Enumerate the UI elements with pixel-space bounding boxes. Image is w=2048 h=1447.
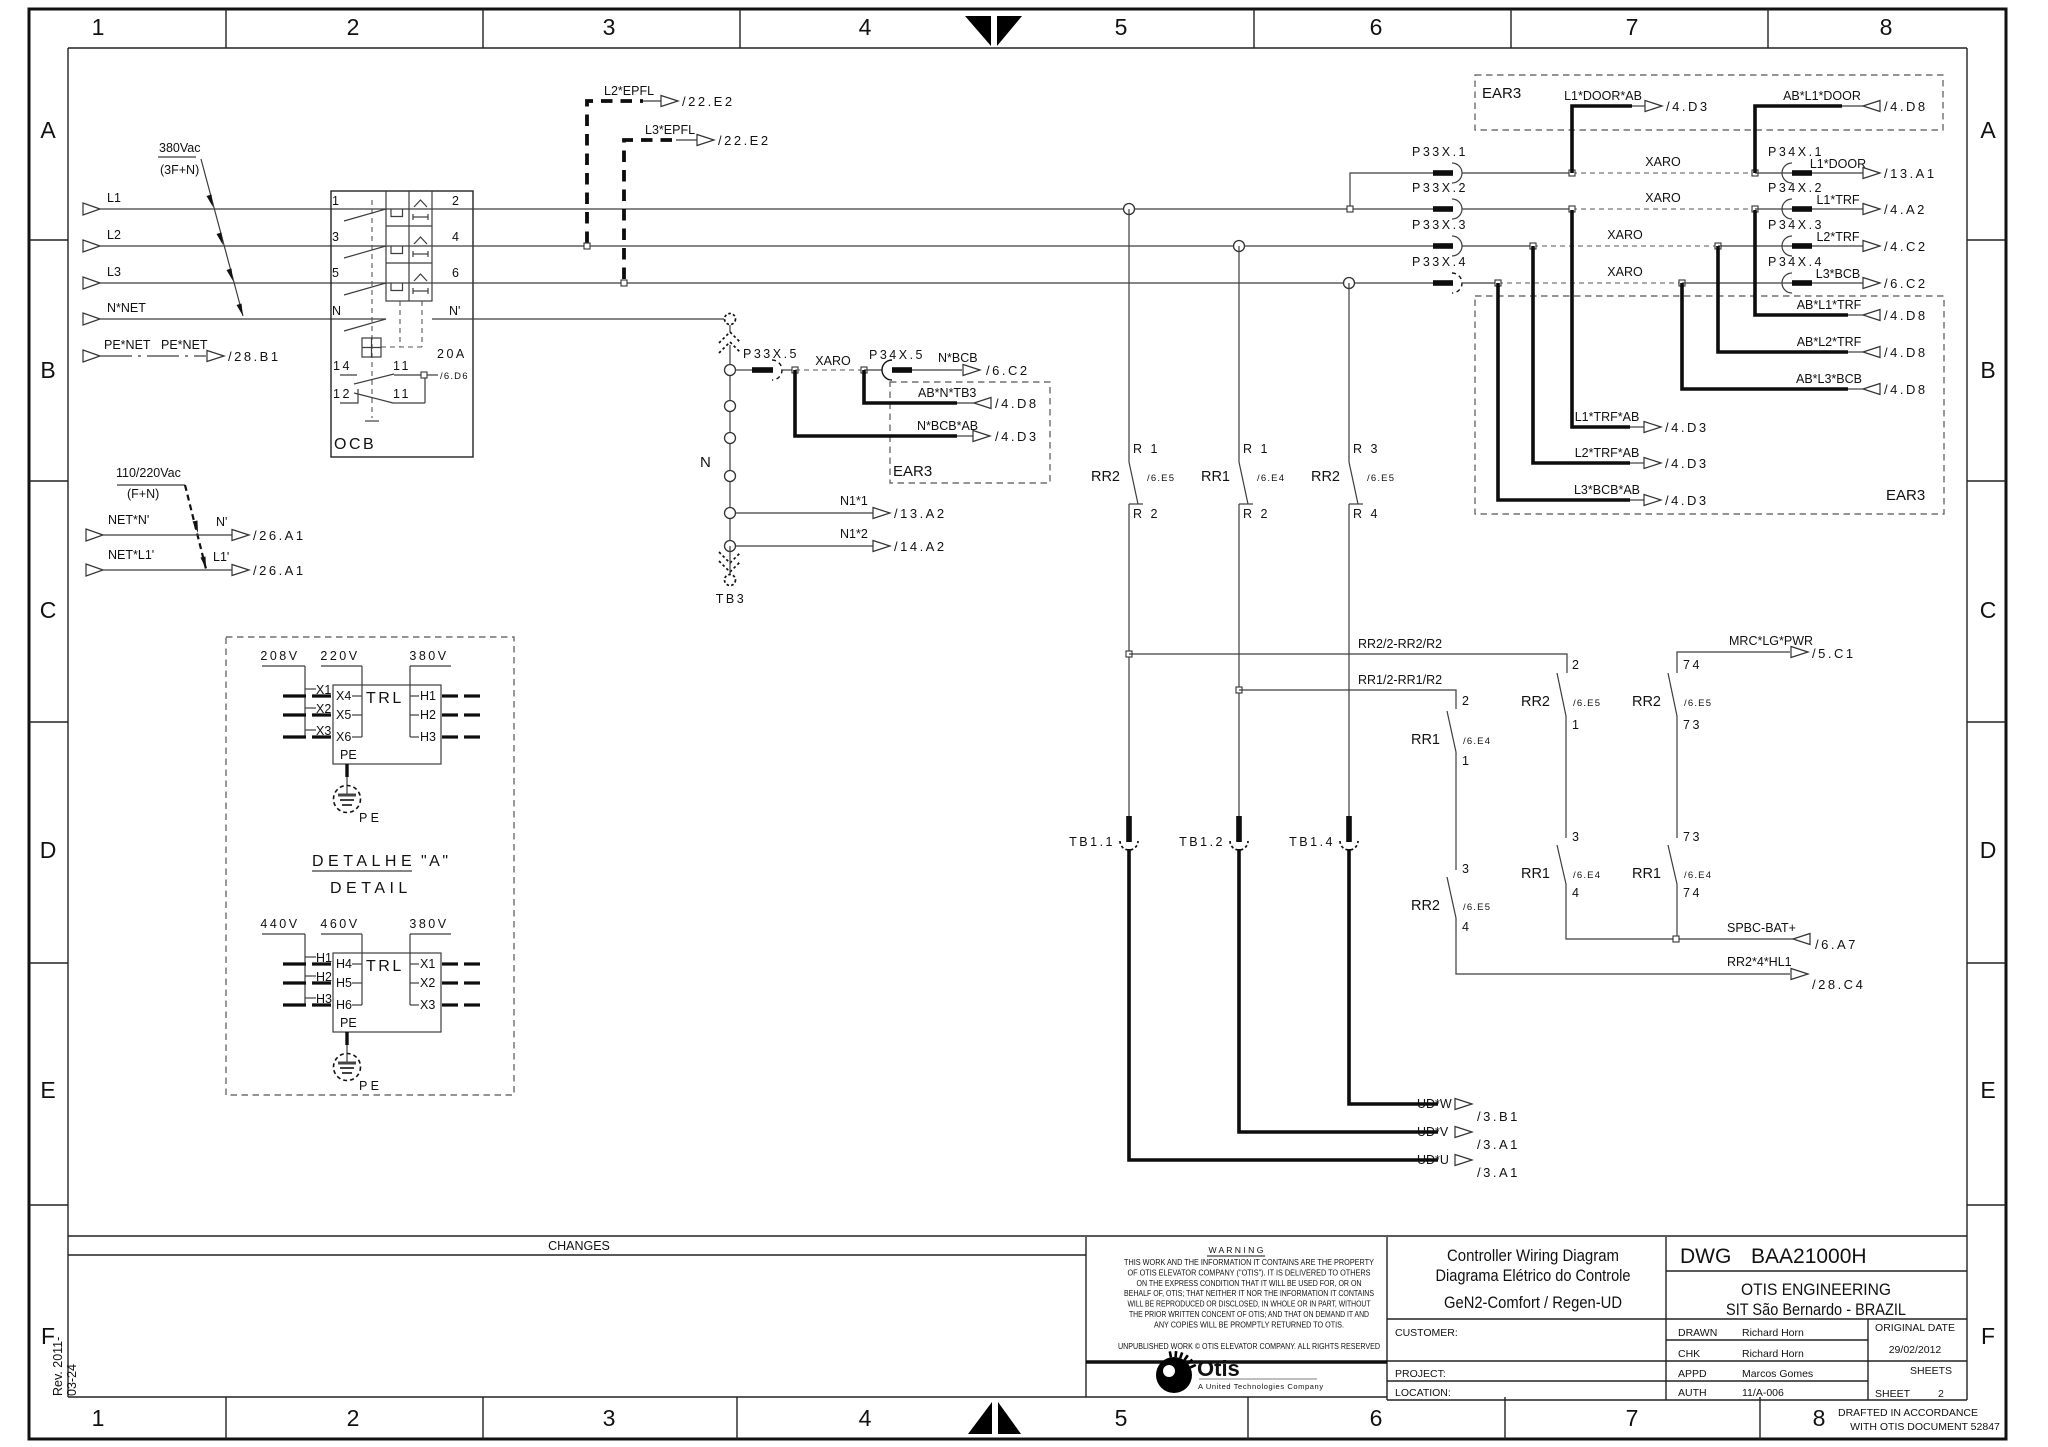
svg-text:TRL: TRL bbox=[366, 690, 404, 707]
wire N1*1 bbox=[736, 494, 947, 521]
svg-text:B: B bbox=[40, 357, 55, 383]
svg-text:N*BCB: N*BCB bbox=[938, 351, 978, 365]
svg-text:DRAWN: DRAWN bbox=[1678, 1327, 1717, 1339]
svg-text:/6.C2: /6.C2 bbox=[986, 363, 1030, 378]
svg-text:(3F+N): (3F+N) bbox=[160, 163, 199, 177]
svg-text:X1: X1 bbox=[420, 957, 435, 971]
svg-text:6: 6 bbox=[452, 266, 459, 280]
wire AB*L1*TRF bbox=[1755, 210, 1928, 323]
svg-text:R 2: R 2 bbox=[1243, 507, 1270, 521]
contact RR2 74-73 bbox=[1632, 658, 1712, 732]
svg-text:P33X.1: P33X.1 bbox=[1412, 145, 1468, 159]
svg-text:UD*V: UD*V bbox=[1417, 1125, 1449, 1139]
TRL secondary pins bbox=[410, 666, 480, 744]
title block warning box bbox=[1086, 1237, 1387, 1400]
svg-text:3: 3 bbox=[332, 230, 339, 244]
svg-text:1: 1 bbox=[92, 1405, 105, 1431]
contact RR1 2-1 bbox=[1411, 694, 1491, 768]
svg-text:TB1.1: TB1.1 bbox=[1069, 835, 1115, 849]
svg-text:L1': L1' bbox=[213, 550, 229, 564]
svg-text:73: 73 bbox=[1683, 830, 1702, 844]
svg-text:OCB: OCB bbox=[334, 436, 376, 453]
title block date box bbox=[1868, 1319, 1955, 1400]
svg-text:/6.E5: /6.E5 bbox=[1147, 473, 1175, 484]
svg-text:PE*NET: PE*NET bbox=[104, 338, 151, 352]
svg-text:/4.D3: /4.D3 bbox=[1665, 420, 1709, 435]
svg-text:11/A-006: 11/A-006 bbox=[1742, 1387, 1784, 1399]
svg-text:PROJECT:: PROJECT: bbox=[1395, 1368, 1446, 1380]
wire L1*DOOR*AB bbox=[1564, 89, 1709, 173]
transformer TRL box bbox=[333, 953, 441, 1032]
wire col1677 middle bbox=[1676, 716, 1678, 838]
contact RR2 2-1 bbox=[1521, 658, 1601, 732]
wire L1*DOOR output bbox=[1810, 157, 1937, 181]
svg-text:AB*L2*TRF: AB*L2*TRF bbox=[1797, 335, 1862, 349]
wire AB*L3*BCB bbox=[1682, 283, 1928, 397]
svg-text:UD*U: UD*U bbox=[1417, 1153, 1449, 1167]
svg-text:A: A bbox=[40, 117, 56, 143]
svg-text:OF OTIS ELEVATOR COMPANY ("OTI: OF OTIS ELEVATOR COMPANY ("OTIS"). IT IS… bbox=[1128, 1267, 1371, 1277]
rev note bbox=[51, 1337, 79, 1396]
svg-text:BEHALF OF, OTIS; THAT NEITHER: BEHALF OF, OTIS; THAT NEITHER IT NOR THE… bbox=[1124, 1288, 1374, 1298]
svg-text:TB3: TB3 bbox=[716, 592, 746, 606]
svg-text:MRC*LG*PWR: MRC*LG*PWR bbox=[1729, 634, 1813, 648]
terminal TB3 bbox=[716, 546, 746, 606]
wire col1456 middle bbox=[1455, 752, 1457, 870]
svg-text:F: F bbox=[1981, 1323, 1995, 1349]
svg-text:L3*BCB*AB: L3*BCB*AB bbox=[1574, 483, 1640, 497]
svg-text:Diagrama Elétrico do Controle: Diagrama Elétrico do Controle bbox=[1436, 1266, 1631, 1285]
svg-text:RR1: RR1 bbox=[1632, 866, 1661, 882]
connector P33X.4 bbox=[1412, 255, 1468, 293]
svg-text:3: 3 bbox=[603, 1405, 616, 1431]
svg-text:6: 6 bbox=[1370, 14, 1383, 40]
svg-text:DWG: DWG bbox=[1680, 1245, 1731, 1268]
svg-text:/6.A7: /6.A7 bbox=[1815, 937, 1858, 952]
svg-text:460V: 460V bbox=[320, 917, 359, 931]
svg-text:WILL BE REPRODUCED OR DISCLOSE: WILL BE REPRODUCED OR DISCLOSED, IN WHOL… bbox=[1128, 1299, 1372, 1309]
svg-text:380V: 380V bbox=[409, 649, 448, 663]
svg-text:/26.A1: /26.A1 bbox=[253, 528, 306, 543]
svg-text:3: 3 bbox=[603, 14, 616, 40]
wire to TB1.2 bbox=[1238, 504, 1240, 816]
svg-text:/22.E2: /22.E2 bbox=[718, 133, 771, 148]
svg-text:/6.E5: /6.E5 bbox=[1367, 473, 1395, 484]
svg-text:7: 7 bbox=[1626, 1405, 1639, 1431]
svg-text:XARO: XARO bbox=[1645, 155, 1681, 169]
svg-text:/6.E4: /6.E4 bbox=[1463, 736, 1491, 747]
svg-text:N1*1: N1*1 bbox=[840, 494, 868, 508]
svg-text:TB1.2: TB1.2 bbox=[1179, 835, 1225, 849]
wire XARO P33X.2-P34X.2 bbox=[1462, 191, 1758, 212]
wire L2 input bbox=[83, 228, 386, 252]
svg-text:H3: H3 bbox=[420, 730, 436, 744]
svg-text:/5.C1: /5.C1 bbox=[1812, 646, 1856, 661]
svg-text:/3.A1: /3.A1 bbox=[1477, 1137, 1520, 1152]
svg-text:WITH OTIS DOCUMENT 52847: WITH OTIS DOCUMENT 52847 bbox=[1850, 1421, 2000, 1433]
svg-text:BAA21000H: BAA21000H bbox=[1751, 1245, 1867, 1268]
svg-text:SPBC-BAT+: SPBC-BAT+ bbox=[1727, 921, 1796, 935]
wire N*BCB*AB bbox=[795, 370, 1039, 444]
svg-text:6: 6 bbox=[1370, 1405, 1383, 1431]
svg-text:/28.B1: /28.B1 bbox=[228, 349, 281, 364]
svg-text:SHEET: SHEET bbox=[1875, 1388, 1911, 1400]
svg-text:THE PRIOR WRITTEN CONCENT OF O: THE PRIOR WRITTEN CONCENT OF OTIS; AND T… bbox=[1129, 1309, 1369, 1319]
svg-text:D: D bbox=[1980, 837, 1997, 863]
svg-text:2: 2 bbox=[1462, 694, 1471, 708]
svg-text:R 3: R 3 bbox=[1353, 442, 1380, 456]
svg-text:74: 74 bbox=[1683, 886, 1702, 900]
svg-text:E: E bbox=[1980, 1077, 1995, 1103]
svg-text:NET*L1': NET*L1' bbox=[108, 548, 154, 562]
svg-text:W A R N I N G: W A R N I N G bbox=[1209, 1245, 1264, 1255]
svg-text:/26.A1: /26.A1 bbox=[253, 563, 306, 578]
svg-text:14: 14 bbox=[333, 359, 352, 373]
svg-text:C: C bbox=[40, 597, 57, 623]
TRL left bracket and pins bbox=[283, 666, 331, 738]
svg-text:APPD: APPD bbox=[1678, 1368, 1707, 1380]
svg-text:Controller Wiring Diagram: Controller Wiring Diagram bbox=[1447, 1246, 1619, 1265]
OCB pole elements row y=283 bbox=[386, 274, 473, 294]
svg-text:RR2*4*HL1: RR2*4*HL1 bbox=[1727, 955, 1792, 969]
svg-text:H6: H6 bbox=[336, 998, 352, 1012]
svg-text:A: A bbox=[1980, 117, 1996, 143]
terminal TB1.2 bbox=[1179, 816, 1248, 850]
svg-text:PE: PE bbox=[340, 748, 357, 762]
svg-text:RR2: RR2 bbox=[1311, 469, 1340, 485]
svg-text:2: 2 bbox=[347, 1405, 360, 1431]
svg-text:P34X.5: P34X.5 bbox=[869, 348, 925, 362]
svg-text:220V: 220V bbox=[320, 649, 359, 663]
svg-text:B: B bbox=[1980, 357, 1995, 383]
svg-text:5: 5 bbox=[1115, 1405, 1128, 1431]
svg-text:20A: 20A bbox=[437, 347, 467, 361]
svg-text:1: 1 bbox=[1572, 718, 1581, 732]
svg-text:ON THE EXPRESS CONDITION THAT: ON THE EXPRESS CONDITION THAT IT WILL BE… bbox=[1137, 1278, 1362, 1288]
node /6.D6 output bbox=[421, 371, 469, 382]
svg-text:/6.E5: /6.E5 bbox=[1573, 698, 1601, 709]
detail box DETALHE A bbox=[226, 637, 514, 1095]
svg-text:/4.A2: /4.A2 bbox=[1884, 202, 1927, 217]
wire PE*NET bbox=[83, 338, 281, 364]
svg-text:/4.D8: /4.D8 bbox=[1884, 345, 1928, 360]
node N vertical bbox=[700, 365, 736, 553]
svg-text:N: N bbox=[332, 304, 341, 318]
svg-text:X6: X6 bbox=[336, 730, 351, 744]
svg-text:TRL: TRL bbox=[366, 958, 404, 975]
svg-text:RR1/2-RR1/R2: RR1/2-RR1/R2 bbox=[1358, 673, 1442, 687]
wire L2*TRF*AB bbox=[1533, 246, 1709, 471]
svg-text:AUTH: AUTH bbox=[1678, 1387, 1707, 1399]
svg-text:11: 11 bbox=[393, 359, 411, 373]
contact RR2 column x=1349 bbox=[1311, 283, 1395, 521]
svg-text:/4.C2: /4.C2 bbox=[1884, 239, 1928, 254]
OCB trip coil bbox=[362, 338, 381, 357]
connector P34X.5 bbox=[864, 348, 925, 380]
svg-text:UD*W: UD*W bbox=[1417, 1097, 1452, 1111]
svg-text:L1*TRF: L1*TRF bbox=[1816, 193, 1859, 207]
svg-text:RR1: RR1 bbox=[1411, 732, 1440, 748]
svg-text:208V: 208V bbox=[260, 649, 299, 663]
svg-text:/4.D8: /4.D8 bbox=[995, 396, 1039, 411]
svg-text:4: 4 bbox=[859, 14, 872, 40]
wire col1566 middle bbox=[1565, 716, 1567, 838]
svg-text:Marcos Gomes: Marcos Gomes bbox=[1742, 1368, 1813, 1380]
svg-text:DETAIL: DETAIL bbox=[330, 880, 412, 897]
junction L1 bbox=[1124, 204, 1135, 215]
svg-text:N': N' bbox=[449, 304, 460, 318]
svg-text:1: 1 bbox=[332, 194, 339, 208]
svg-text:X3: X3 bbox=[420, 998, 435, 1012]
connector P34X.4 bbox=[1682, 255, 1824, 293]
wire L1 input bbox=[83, 191, 386, 215]
svg-text:ANY COPIES WILL BE PROMPTLY RE: ANY COPIES WILL BE PROMPTLY RETURNED TO … bbox=[1154, 1319, 1344, 1329]
svg-text:L2: L2 bbox=[107, 228, 121, 242]
connector P34X.3 bbox=[1718, 218, 1824, 256]
title block project box bbox=[1387, 1246, 1967, 1400]
OCB pole elements row y=209 bbox=[386, 200, 473, 220]
wire RR2/2-RR2/R2 bbox=[1126, 637, 1567, 673]
wire XARO P33X.4-P34X.4 bbox=[1462, 265, 1685, 286]
svg-text:XARO: XARO bbox=[815, 354, 851, 368]
wire col1677 to SPBC node bbox=[1676, 884, 1678, 936]
svg-text:A United Technologies Company: A United Technologies Company bbox=[1198, 1382, 1324, 1391]
svg-text:2: 2 bbox=[1572, 658, 1581, 672]
wire L3 input bbox=[83, 265, 386, 289]
wire SPBC-BAT+ bbox=[1566, 884, 1858, 952]
svg-text:L1*DOOR*AB: L1*DOOR*AB bbox=[1564, 89, 1642, 103]
svg-text:RR2/2-RR2/R2: RR2/2-RR2/R2 bbox=[1358, 637, 1442, 651]
wire AB*L1*DOOR bbox=[1755, 89, 1928, 173]
svg-text:L1*DOOR: L1*DOOR bbox=[1810, 157, 1866, 171]
wire L3*BCB output bbox=[1812, 267, 1928, 291]
column grid bottom band bbox=[92, 1397, 1826, 1439]
svg-text:L2*TRF*AB: L2*TRF*AB bbox=[1575, 446, 1640, 460]
label 380Vac source bbox=[158, 141, 243, 316]
label 110/220Vac source bbox=[116, 466, 206, 569]
svg-text:N*NET: N*NET bbox=[107, 301, 146, 315]
row grid left band bbox=[29, 117, 68, 1349]
svg-text:2: 2 bbox=[347, 14, 360, 40]
svg-text:AB*L3*BCB: AB*L3*BCB bbox=[1796, 372, 1862, 386]
svg-text:/6.E4: /6.E4 bbox=[1257, 473, 1285, 484]
svg-text:R 1: R 1 bbox=[1133, 442, 1160, 456]
svg-text:EAR3: EAR3 bbox=[893, 463, 932, 480]
wire L2 bus bbox=[473, 245, 1433, 247]
svg-text:3: 3 bbox=[1462, 862, 1471, 876]
svg-text:/4.D8: /4.D8 bbox=[1884, 382, 1928, 397]
svg-text:P33X.4: P33X.4 bbox=[1412, 255, 1468, 269]
svg-text:/4.D8: /4.D8 bbox=[1884, 308, 1928, 323]
svg-text:2: 2 bbox=[452, 194, 459, 208]
connector P34X.1 bbox=[1755, 145, 1824, 183]
TRL primary pins bbox=[336, 666, 362, 744]
TRL PE pin and ground bbox=[334, 748, 379, 825]
svg-text:/6.D6: /6.D6 bbox=[440, 371, 469, 382]
drafted note bbox=[1838, 1407, 2000, 1433]
svg-text:H2: H2 bbox=[420, 708, 436, 722]
column grid top band bbox=[92, 9, 1893, 48]
svg-text:8: 8 bbox=[1880, 14, 1893, 40]
wire L2*TRF output bbox=[1812, 230, 1928, 254]
svg-text:CHK: CHK bbox=[1678, 1348, 1700, 1360]
svg-text:P E: P E bbox=[359, 811, 379, 825]
wire L3*BCB*AB bbox=[1498, 283, 1709, 508]
contact RR2 3-4 bbox=[1411, 862, 1491, 934]
svg-text:L3*BCB: L3*BCB bbox=[1816, 267, 1860, 281]
svg-text:"A": "A" bbox=[421, 853, 451, 870]
svg-text:X4: X4 bbox=[336, 689, 351, 703]
svg-text:/6.E5: /6.E5 bbox=[1463, 902, 1491, 913]
svg-text:74: 74 bbox=[1683, 658, 1702, 672]
wire to TB1.1 bbox=[1128, 504, 1130, 816]
TRL left bracket and pins bbox=[283, 934, 332, 1006]
wire branch to P33X.1 bbox=[1347, 173, 1433, 212]
connector P34X.2 bbox=[1755, 181, 1824, 219]
changes band bbox=[68, 1236, 1967, 1255]
terminal N' break top bbox=[719, 314, 741, 366]
svg-text:LOCATION:: LOCATION: bbox=[1395, 1387, 1451, 1399]
svg-text:/13.A2: /13.A2 bbox=[894, 506, 947, 521]
EAR3 box top bbox=[1475, 75, 1943, 130]
svg-text:RR1: RR1 bbox=[1201, 469, 1230, 485]
svg-text:P E: P E bbox=[359, 1079, 379, 1093]
wire RR2*4*HL1 bbox=[1456, 918, 1865, 992]
svg-text:SHEETS: SHEETS bbox=[1910, 1365, 1952, 1377]
svg-text:CHANGES: CHANGES bbox=[548, 1239, 610, 1253]
svg-text:XARO: XARO bbox=[1607, 265, 1643, 279]
wire UD*V bbox=[1239, 849, 1520, 1152]
svg-text:4: 4 bbox=[1572, 886, 1581, 900]
svg-text:E: E bbox=[40, 1077, 55, 1103]
svg-text:H1: H1 bbox=[420, 689, 436, 703]
svg-text:/28.C4: /28.C4 bbox=[1812, 977, 1865, 992]
svg-text:/13.A1: /13.A1 bbox=[1884, 166, 1937, 181]
svg-text:OTIS ENGINEERING: OTIS ENGINEERING bbox=[1741, 1280, 1891, 1299]
svg-text:EAR3: EAR3 bbox=[1482, 85, 1521, 102]
svg-text:03-24: 03-24 bbox=[65, 1364, 79, 1396]
svg-text:P33X.2: P33X.2 bbox=[1412, 181, 1468, 195]
svg-text:/6.E4: /6.E4 bbox=[1684, 870, 1712, 881]
wire UD*W bbox=[1349, 849, 1520, 1124]
svg-text:C: C bbox=[1980, 597, 1997, 623]
svg-text:L2*EPFL: L2*EPFL bbox=[604, 84, 654, 98]
OCB mechanism dashed link bbox=[365, 200, 422, 421]
svg-text:380Vac: 380Vac bbox=[159, 141, 200, 155]
transformer TRL labels 440V/460V/380V bbox=[260, 917, 451, 934]
OCB switch blades bbox=[344, 209, 473, 331]
svg-text:Otis: Otis bbox=[1197, 1356, 1240, 1381]
wire XARO P33X.3-P34X.3 bbox=[1462, 228, 1721, 249]
svg-text:ORIGINAL DATE: ORIGINAL DATE bbox=[1875, 1322, 1955, 1334]
wire XARO P33X.1-P34X.1 bbox=[1462, 155, 1758, 176]
wire L2*EPFL bbox=[584, 84, 735, 249]
svg-text:440V: 440V bbox=[260, 917, 299, 931]
svg-text:X2: X2 bbox=[420, 976, 435, 990]
svg-text:/4.D8: /4.D8 bbox=[1884, 99, 1928, 114]
svg-text:(F+N): (F+N) bbox=[127, 487, 159, 501]
svg-text:4: 4 bbox=[452, 230, 459, 244]
svg-text:11: 11 bbox=[393, 387, 411, 401]
svg-text:EAR3: EAR3 bbox=[1886, 487, 1925, 504]
svg-text:/4.D3: /4.D3 bbox=[1666, 99, 1710, 114]
svg-text:AB*L1*TRF: AB*L1*TRF bbox=[1797, 298, 1862, 312]
svg-text:/4.D3: /4.D3 bbox=[995, 429, 1039, 444]
wire MRC*LG*PWR bbox=[1677, 634, 1856, 673]
contact RR1 column x=1239 bbox=[1201, 246, 1285, 521]
svg-text:XARO: XARO bbox=[1607, 228, 1643, 242]
svg-text:L1*TRF*AB: L1*TRF*AB bbox=[1575, 410, 1640, 424]
svg-text:1: 1 bbox=[1462, 754, 1471, 768]
svg-text:N': N' bbox=[216, 515, 227, 529]
svg-text:PE: PE bbox=[340, 1016, 357, 1030]
svg-text:X5: X5 bbox=[336, 708, 351, 722]
svg-text:R 1: R 1 bbox=[1243, 442, 1270, 456]
svg-text:DETALHE: DETALHE bbox=[312, 853, 416, 870]
svg-text:380V: 380V bbox=[409, 917, 448, 931]
svg-text:/14.A2: /14.A2 bbox=[894, 539, 947, 554]
detail title bbox=[312, 853, 451, 897]
svg-text:/4.D3: /4.D3 bbox=[1665, 493, 1709, 508]
svg-text:5: 5 bbox=[332, 266, 339, 280]
svg-text:4: 4 bbox=[1462, 920, 1471, 934]
circuit breaker OCB bbox=[331, 191, 473, 457]
junction L2 bbox=[1234, 241, 1245, 252]
wire XARO P33X.5-P34X.5 bbox=[792, 354, 867, 373]
svg-text:12: 12 bbox=[333, 387, 352, 401]
TRL secondary pins bbox=[410, 934, 480, 1012]
svg-text:/6.E4: /6.E4 bbox=[1573, 870, 1601, 881]
svg-text:1: 1 bbox=[92, 14, 105, 40]
wire L1*TRF output bbox=[1812, 193, 1927, 217]
svg-text:7: 7 bbox=[1626, 14, 1639, 40]
svg-text:L3*EPFL: L3*EPFL bbox=[645, 123, 695, 137]
svg-text:H4: H4 bbox=[336, 957, 352, 971]
fold mark top bbox=[965, 16, 1022, 46]
svg-text:N*BCB*AB: N*BCB*AB bbox=[917, 419, 978, 433]
svg-text:/22.E2: /22.E2 bbox=[682, 94, 735, 109]
Otis logo bbox=[1156, 1351, 1324, 1393]
transformer TRL box bbox=[333, 685, 441, 764]
wire RR1/2-RR1/R2 bbox=[1236, 673, 1456, 709]
wire AB*L2*TRF bbox=[1718, 246, 1928, 360]
svg-text:SIT São Bernardo - BRAZIL: SIT São Bernardo - BRAZIL bbox=[1726, 1300, 1906, 1319]
svg-text:RR2: RR2 bbox=[1091, 469, 1120, 485]
svg-text:73: 73 bbox=[1683, 718, 1702, 732]
wire N*NET input bbox=[83, 301, 386, 325]
title block signatures bbox=[1666, 1327, 1868, 1399]
wire N*BCB output bbox=[912, 351, 1030, 378]
svg-text:L2*TRF: L2*TRF bbox=[1816, 230, 1859, 244]
svg-text:XARO: XARO bbox=[1645, 191, 1681, 205]
svg-text:110/220Vac: 110/220Vac bbox=[116, 466, 181, 480]
junction L3 bbox=[1344, 278, 1355, 289]
wire L1 bus bbox=[473, 208, 1433, 210]
contact RR2 column x=1129 bbox=[1091, 209, 1175, 521]
TRL PE pin and ground bbox=[334, 1016, 379, 1093]
wire NET*L1' bbox=[86, 548, 306, 578]
svg-text:GeN2-Comfort / Regen-UD: GeN2-Comfort / Regen-UD bbox=[1444, 1293, 1622, 1312]
wire UD*U bbox=[1129, 849, 1520, 1180]
EAR3 box bottom bbox=[1475, 296, 1944, 514]
svg-text:N: N bbox=[700, 454, 711, 471]
terminal TB1.1 bbox=[1069, 816, 1138, 850]
svg-text:L3: L3 bbox=[107, 265, 121, 279]
OCB aux contact 14-11 bbox=[333, 359, 421, 384]
svg-text:/4.D3: /4.D3 bbox=[1665, 456, 1709, 471]
svg-text:N1*2: N1*2 bbox=[840, 527, 868, 541]
svg-text:5: 5 bbox=[1115, 14, 1128, 40]
